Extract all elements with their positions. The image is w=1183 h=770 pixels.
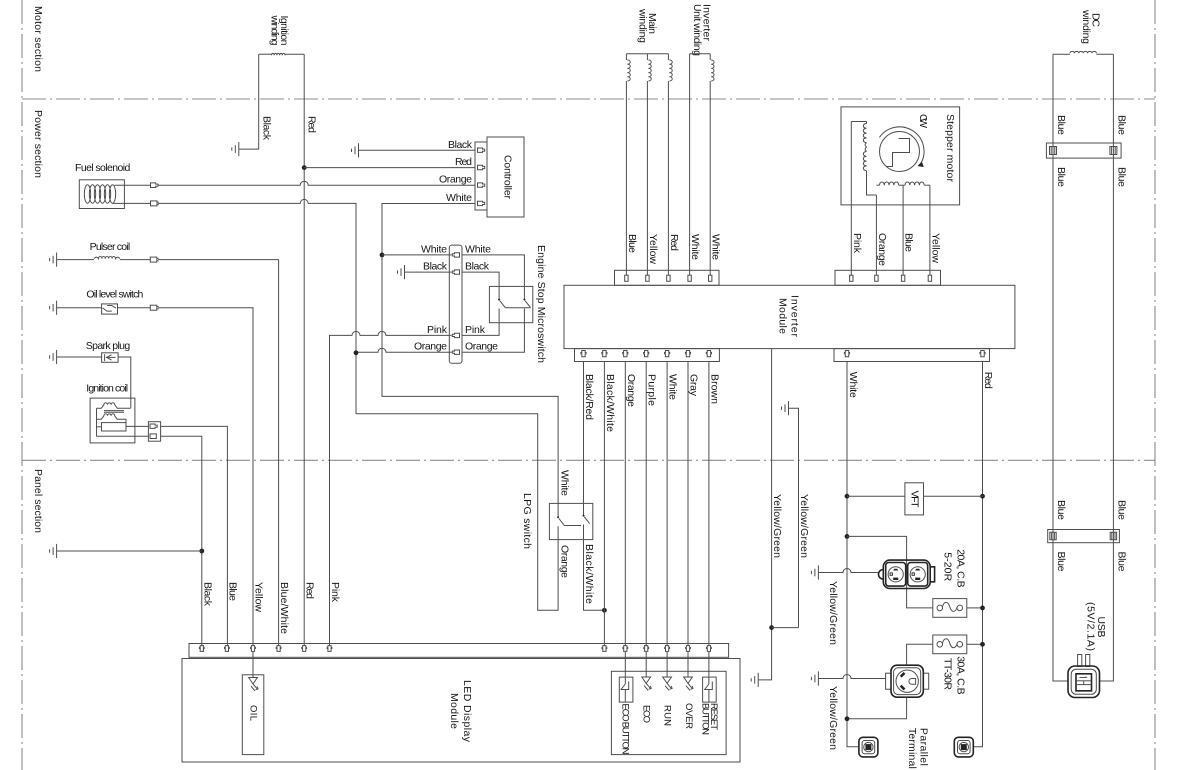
wire Yellow main winding <box>646 81 648 275</box>
svg-text:Yellow: Yellow <box>253 582 265 612</box>
svg-text:White: White <box>421 243 447 255</box>
svg-text:Red: Red <box>982 372 994 389</box>
inverter unit winding label <box>691 4 713 56</box>
svg-text:Module: Module <box>448 693 460 729</box>
ignition winding L1 <box>259 15 305 56</box>
svg-text:Ignition coil: Ignition coil <box>86 382 128 394</box>
label Blue top-left below <box>1055 167 1067 187</box>
svg-text:Engine Stop Microswitch: Engine Stop Microswitch <box>535 245 547 363</box>
label Black/Red <box>583 374 595 420</box>
wire Orange microswitch to junction <box>356 348 452 352</box>
label Brown <box>708 374 720 404</box>
label Parallel Terminal <box>906 728 930 769</box>
svg-text:Orange: Orange <box>625 374 637 407</box>
label Yellow (stepper) <box>929 233 941 263</box>
svg-text:Orange: Orange <box>876 233 888 266</box>
VFT module <box>905 483 924 515</box>
wire Yellow/Green inverter to ground <box>758 349 771 680</box>
node Black/White junction <box>602 608 607 613</box>
svg-text:Inverter: Inverter <box>789 295 801 338</box>
wire breaker1 to red <box>967 607 983 609</box>
svg-text:Orange: Orange <box>465 341 498 353</box>
wire spark plug to ignition coil <box>118 357 131 408</box>
svg-text:Fuel solenoid: Fuel solenoid <box>75 162 131 174</box>
svg-text:Brown: Brown <box>708 374 720 404</box>
left border dash-dot line <box>21 0 23 770</box>
wire Yellow/Green link <box>772 627 799 629</box>
node breaker1 red <box>980 606 985 611</box>
label Red (main winding) <box>668 234 680 251</box>
microswitch connector strip <box>449 245 462 363</box>
wire red to breaker2 <box>967 643 983 645</box>
svg-text:5-20R: 5-20R <box>941 552 953 581</box>
ground spark plug <box>50 350 57 364</box>
DC winding label <box>1080 9 1102 44</box>
svg-text:Orange: Orange <box>414 341 447 353</box>
wire Yellow/Green to inverter ground <box>789 408 799 627</box>
wire Black/White inverter to LED module <box>603 362 605 646</box>
svg-text:winding: winding <box>269 15 281 46</box>
svg-text:Pink: Pink <box>465 324 486 336</box>
LED connector strip <box>189 644 729 658</box>
svg-text:Unit winding: Unit winding <box>691 4 703 56</box>
label Yellow/Green 1 <box>771 494 783 558</box>
wire Blue ignition coil to LED module <box>161 426 228 645</box>
DC connector 1 <box>1046 143 1121 158</box>
label White (inverter output) <box>847 372 859 398</box>
label Yellow (LED) <box>253 582 265 612</box>
pulser coil <box>57 241 151 260</box>
label Blue mid-right above <box>1115 500 1127 520</box>
svg-text:Module: Module <box>777 298 789 334</box>
svg-text:Black: Black <box>448 139 473 151</box>
ground controller black <box>352 143 476 157</box>
svg-text:Black: Black <box>423 261 448 273</box>
OVER LED <box>683 652 694 729</box>
wire Orange fuel solenoid to controller <box>158 181 475 185</box>
wire Gray inverter to LED module <box>687 362 689 646</box>
wire White inverter output bus <box>847 362 859 747</box>
node red VFT <box>980 494 985 499</box>
ground oil level switch <box>50 301 57 315</box>
svg-text:Red: Red <box>455 156 472 168</box>
label Blue mid-left below <box>1055 552 1067 572</box>
svg-text:Pink: Pink <box>427 324 448 336</box>
label Blue (LED) <box>226 582 238 601</box>
wire white to 5-20R outlet through breaker1 <box>847 536 933 608</box>
wire breaker2 to TT-30R <box>907 644 933 665</box>
wire White inverter unit winding left <box>689 54 691 275</box>
svg-text:BUTTON: BUTTON <box>700 703 711 735</box>
wire fuel solenoid bottom to orange junction <box>158 199 356 413</box>
svg-text:winding: winding <box>637 8 649 43</box>
wire Blue main winding <box>625 81 627 275</box>
label Pink (LED) <box>329 582 341 603</box>
ground microswitch black <box>398 265 452 279</box>
label Blue/White (LED) <box>278 582 290 634</box>
label White (controller) <box>446 192 472 204</box>
node white outlet branch <box>845 534 850 539</box>
label USB <box>1085 602 1108 651</box>
label White (LPG) <box>559 470 571 496</box>
svg-text:Spark plug: Spark plug <box>86 340 131 352</box>
svg-text:Black: Black <box>261 116 273 141</box>
connector pin oil level switch <box>150 305 158 310</box>
ignition coil <box>86 382 148 443</box>
svg-text:Red: Red <box>668 234 680 251</box>
label White (inverter winding 2) <box>710 234 722 260</box>
svg-text:Power section: Power section <box>32 110 44 178</box>
label Black (microswitch right) <box>465 261 490 273</box>
node white VFT <box>845 494 850 499</box>
label Yellow/Green 3 <box>827 581 839 645</box>
svg-text:Yellow/Green: Yellow/Green <box>798 494 810 558</box>
stepper motor M1 <box>841 107 960 205</box>
node Red to controller <box>302 165 307 170</box>
fuel solenoid <box>75 162 151 209</box>
svg-text:Blue: Blue <box>1055 115 1067 135</box>
label Blue (stepper) <box>903 233 915 252</box>
svg-text:White: White <box>667 374 679 400</box>
svg-text:White: White <box>559 470 571 496</box>
ECO button <box>619 652 633 755</box>
DC winding L4 <box>1053 51 1113 54</box>
svg-text:White: White <box>446 192 472 204</box>
DC connector 2 <box>1048 530 1120 543</box>
label Orange (LPG) <box>559 545 571 578</box>
wire Yellow stepper <box>929 185 931 275</box>
svg-text:Black/White: Black/White <box>604 374 616 432</box>
wire Red inverter output bus <box>973 362 982 747</box>
node parallel terminal <box>845 716 850 721</box>
LED panel right box <box>611 671 726 754</box>
svg-text:ECO: ECO <box>641 705 652 723</box>
label Yellow (main winding) <box>647 234 659 264</box>
svg-text:TT-30R: TT-30R <box>941 658 953 690</box>
svg-text:Blue: Blue <box>1055 552 1067 572</box>
label Black (LED) <box>201 582 213 607</box>
label White (inverter winding 1) <box>689 234 701 260</box>
inverter module bottom-right connector <box>834 349 990 362</box>
ground ignition winding <box>232 142 239 156</box>
inverter module top-left connector <box>615 270 720 285</box>
label Orange (stepper) <box>876 233 888 266</box>
ground LED module yellow/green <box>751 673 758 687</box>
oil level switch <box>57 289 151 315</box>
svg-text:Blue: Blue <box>226 582 238 601</box>
svg-text:Controller: Controller <box>502 155 514 200</box>
controller connector strip <box>475 142 487 210</box>
svg-text:Black/White: Black/White <box>583 544 595 604</box>
ground panel black wire <box>50 544 202 558</box>
wire white to VFT <box>847 495 905 497</box>
svg-text:30A, C.B: 30A, C.B <box>954 656 966 695</box>
svg-text:Yellow/Green: Yellow/Green <box>827 686 839 750</box>
svg-text:Black/Red: Black/Red <box>583 374 595 420</box>
svg-text:Blue: Blue <box>1055 500 1067 520</box>
RESET button <box>700 652 720 735</box>
svg-text:Blue/White: Blue/White <box>278 582 290 634</box>
label White (microswitch right) <box>465 243 491 255</box>
svg-text:Oil level switch: Oil level switch <box>86 289 143 301</box>
svg-text:VFT: VFT <box>909 491 921 509</box>
svg-text:Pink: Pink <box>851 233 863 254</box>
wire Purple inverter to LED module <box>645 362 647 646</box>
duplex outlet 5-20R <box>879 560 935 588</box>
wire Orange stepper <box>875 195 877 275</box>
label Panel section <box>32 469 44 533</box>
svg-text:Panel section: Panel section <box>32 469 44 533</box>
svg-text:CW: CW <box>917 114 929 128</box>
svg-text:White: White <box>847 372 859 398</box>
ground TT-30R outlet <box>811 671 885 685</box>
svg-text:ECO BUTTON: ECO BUTTON <box>620 704 631 755</box>
wire Brown inverter to LED module <box>708 362 710 646</box>
label Purple <box>646 374 658 406</box>
svg-text:LPG switch: LPG switch <box>521 493 533 549</box>
svg-text:Blue: Blue <box>1115 115 1127 135</box>
controller U2 <box>487 137 524 217</box>
svg-text:Pink: Pink <box>329 582 341 603</box>
label Red (inverter output) <box>982 372 994 389</box>
node White to microswitch <box>380 253 385 258</box>
label Blue top-left above <box>1055 115 1067 135</box>
label Pink (microswitch right) <box>465 324 486 336</box>
svg-text:Purple: Purple <box>646 374 658 406</box>
node Orange junction <box>354 350 359 355</box>
wire white branch to microswitch <box>382 254 452 256</box>
wire Orange LPG return <box>356 414 558 611</box>
parallel terminal right <box>954 737 973 757</box>
RUN LED <box>662 652 673 726</box>
ECO LED <box>641 652 652 723</box>
node yellow/green junction <box>769 625 774 630</box>
label Red (LED) <box>304 582 316 599</box>
connector ignition coil <box>148 422 160 442</box>
svg-text:Blue: Blue <box>626 234 638 253</box>
label Engine Stop Microswitch <box>535 245 547 363</box>
wire Black/Red inverter to LPG <box>583 362 585 503</box>
label Blue mid-right below <box>1115 552 1127 572</box>
svg-text:Stepper motor: Stepper motor <box>944 114 956 183</box>
wire Black ignition coil to LED module <box>161 436 202 645</box>
label White (inverter) <box>667 374 679 400</box>
ground 5-20R outlet <box>811 565 878 579</box>
label Blue top-right above <box>1115 115 1127 135</box>
wire Pink microswitch to LED module <box>330 331 452 645</box>
inverter module bottom-left connector <box>575 349 720 362</box>
right border dash-dot line <box>1154 0 1156 770</box>
svg-text:Red: Red <box>304 582 316 599</box>
wire Blue DC left <box>1053 54 1068 681</box>
svg-text:Blue: Blue <box>1115 167 1127 187</box>
label Orange (microswitch right) <box>465 341 498 353</box>
label Motor section <box>32 6 44 72</box>
label LPG switch <box>521 493 533 549</box>
wire Blue/White pulser to LED module <box>158 260 279 646</box>
label Power section <box>32 110 44 178</box>
inverter module U3 <box>564 285 1015 348</box>
wire Black/White LPG to junction <box>584 525 605 611</box>
svg-text:White: White <box>689 234 701 260</box>
wire Black (ignition winding to ground) <box>239 54 259 149</box>
label Yellow/Green 2 <box>798 494 810 558</box>
svg-text:OVER: OVER <box>683 703 694 729</box>
node Black ground junction <box>199 549 204 554</box>
label White (microswitch left) <box>421 243 447 255</box>
label Orange (controller) <box>439 174 472 186</box>
svg-text:Gray: Gray <box>688 374 700 397</box>
svg-text:Orange: Orange <box>559 545 571 578</box>
LPG switch S2 <box>549 502 592 540</box>
svg-text:Red: Red <box>306 116 318 133</box>
label Pink (microswitch left) <box>427 324 448 336</box>
wire Blue stepper <box>902 185 904 275</box>
wire Red main winding <box>667 81 669 275</box>
label Black <box>261 116 273 141</box>
wire White inverter unit winding right <box>709 81 711 275</box>
svg-text:OIL: OIL <box>247 705 258 721</box>
svg-text:Blue: Blue <box>903 233 915 252</box>
main winding L2 <box>626 54 672 81</box>
wire White inverter to LED module <box>666 362 668 646</box>
svg-text:20A, C.B: 20A, C.B <box>954 549 966 588</box>
outlet TT-30R <box>886 665 929 697</box>
label Red <box>306 116 318 133</box>
label Orange (microswitch left) <box>414 341 447 353</box>
svg-text:Yellow: Yellow <box>929 233 941 263</box>
parallel terminal left <box>859 737 878 757</box>
LED display module U4 <box>182 659 740 763</box>
circuit breaker 30A <box>933 635 967 654</box>
svg-text:LED Display: LED Display <box>461 680 473 743</box>
label Red (controller) <box>455 156 472 168</box>
svg-text:Pulser coil: Pulser coil <box>90 241 131 253</box>
svg-text:winding: winding <box>1080 9 1092 44</box>
wire TT-30R return <box>847 697 907 719</box>
ground inverter yellow/green <box>782 401 789 415</box>
OIL indicator box <box>242 652 263 755</box>
svg-text:(5V/2.1A): (5V/2.1A) <box>1085 602 1097 651</box>
wire White controller to LPG switch <box>382 204 558 504</box>
svg-text:White: White <box>710 234 722 260</box>
wire VFT to red <box>924 495 983 497</box>
svg-text:Black: Black <box>465 261 490 273</box>
svg-text:Motor section: Motor section <box>32 6 44 72</box>
spark plug <box>57 340 131 362</box>
svg-text:Orange: Orange <box>439 174 472 186</box>
label Black (microswitch left) <box>423 261 448 273</box>
wire Yellow oil switch to LED module <box>158 308 253 646</box>
svg-text:RUN: RUN <box>662 705 673 726</box>
main winding label <box>637 8 659 43</box>
ground pulser coil <box>50 253 57 267</box>
connector pin pulser <box>150 257 158 262</box>
wire Pink stepper <box>850 122 852 276</box>
label Black/White <box>604 374 616 432</box>
wire Red (ignition winding down to LED module) <box>303 54 305 645</box>
label 20A CB <box>941 549 966 588</box>
label Pink (stepper) <box>851 233 863 254</box>
svg-text:Blue: Blue <box>1115 552 1127 572</box>
svg-text:Blue: Blue <box>1055 167 1067 187</box>
inverter module top-right connector <box>835 270 941 285</box>
connector pin fuel solenoid top <box>151 183 159 188</box>
label Black (controller) <box>448 139 473 151</box>
label Black/White (LPG) <box>583 544 595 604</box>
circuit breaker 20A <box>933 599 967 618</box>
wire Blue DC right <box>1100 54 1114 681</box>
label Blue top-right below <box>1115 167 1127 187</box>
node breaker2 red <box>980 642 985 647</box>
svg-text:Yellow/Green: Yellow/Green <box>771 494 783 558</box>
svg-text:Parallel: Parallel <box>917 728 929 766</box>
inverter unit winding L3 <box>690 54 714 81</box>
USB connector <box>1068 655 1100 698</box>
label 30A CB <box>941 656 966 695</box>
wire Orange inverter to LED module <box>624 362 626 646</box>
label Blue (main winding) <box>626 234 638 253</box>
svg-text:Black: Black <box>201 582 213 607</box>
label Orange (inverter) <box>625 374 637 407</box>
label Gray <box>688 374 700 397</box>
svg-text:White: White <box>465 243 491 255</box>
section divider power/panel <box>22 459 1155 461</box>
label Blue mid-left above <box>1055 500 1067 520</box>
svg-text:Terminal: Terminal <box>906 728 918 769</box>
svg-text:Yellow/Green: Yellow/Green <box>827 581 839 645</box>
svg-text:Yellow: Yellow <box>647 234 659 264</box>
wire Red to controller <box>304 167 475 169</box>
connector pin fuel solenoid bottom <box>151 201 159 206</box>
svg-text:Blue: Blue <box>1115 500 1127 520</box>
section divider motor/power <box>22 98 1155 100</box>
engine stop microswitch S1 <box>462 255 533 352</box>
label Yellow/Green 4 <box>827 686 839 750</box>
